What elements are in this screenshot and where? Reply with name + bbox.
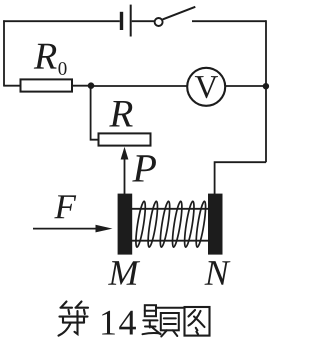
svg-text:14: 14 <box>99 303 138 341</box>
wire node A to voltmeter <box>91 85 187 87</box>
wire right side <box>265 20 267 162</box>
svg-text:0: 0 <box>58 59 68 80</box>
caption char ti (题) <box>143 305 184 336</box>
svg-text:F: F <box>53 187 76 226</box>
contact bar N <box>208 194 223 255</box>
spring bottom line <box>132 240 208 242</box>
svg-text:R: R <box>33 36 57 78</box>
wire node A down to rheostat R <box>91 86 99 140</box>
node B junction dot <box>263 83 269 89</box>
resistor R0 <box>21 79 73 91</box>
wire step down to N <box>215 162 266 194</box>
svg-text:N: N <box>204 253 231 293</box>
caption char di (第) <box>59 302 89 336</box>
wire top left segment <box>3 20 120 22</box>
caption char tu (图) <box>185 307 210 336</box>
wire left to R0 <box>3 85 20 87</box>
svg-text:V: V <box>194 70 218 106</box>
wire switch to top right corner <box>192 20 266 22</box>
spring coil loops <box>134 201 207 248</box>
spring top line <box>132 208 208 210</box>
wire left side <box>3 20 5 85</box>
wire R0 to node A <box>72 85 92 87</box>
switch S <box>155 7 196 26</box>
wire voltmeter to node B <box>225 85 266 87</box>
force arrow F <box>33 225 113 233</box>
node A junction dot <box>88 82 95 89</box>
svg-text:R: R <box>108 92 133 135</box>
svg-text:P: P <box>131 145 156 190</box>
rheostat R <box>99 133 151 145</box>
slider arrow P <box>121 147 129 194</box>
voltmeter V <box>187 68 225 106</box>
contact bar M <box>118 194 133 255</box>
wire battery to switch <box>132 20 155 22</box>
battery <box>120 5 132 37</box>
svg-text:M: M <box>107 253 140 293</box>
